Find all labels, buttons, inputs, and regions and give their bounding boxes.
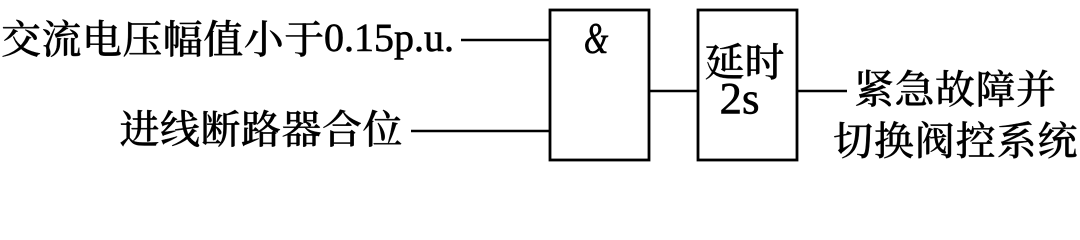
AND gate U1 symbol & [585, 24, 608, 54]
label output line 2: 切换阀控系统 [834, 121, 1076, 158]
label input 2: 进线断路器合位 [121, 110, 402, 147]
label input 1: 交流电压幅值小于0.15p.u. [3, 20, 452, 60]
AND gate U1 box [550, 10, 649, 160]
wire input 1 [461, 39, 550, 41]
delay block U2 label 延时 [706, 43, 784, 80]
delay block U2 value 2s [722, 84, 758, 114]
wire input 2 [411, 130, 550, 132]
label output line 1: 紧急故障并 [856, 70, 1054, 107]
wire output [797, 90, 847, 92]
wire AND output to delay block [649, 90, 698, 92]
delay block U2 box [698, 10, 797, 160]
